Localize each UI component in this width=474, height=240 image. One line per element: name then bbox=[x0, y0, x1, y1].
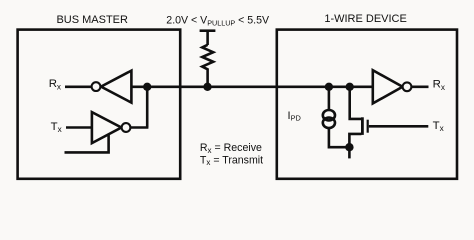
svg-text:Rx = Receive: Rx = Receive bbox=[200, 142, 262, 155]
svg-text:2.0V < VPULLUP < 5.5V: 2.0V < VPULLUP < 5.5V bbox=[166, 14, 270, 27]
svg-text:BUS MASTER: BUS MASTER bbox=[56, 14, 128, 26]
svg-text:Tx: Tx bbox=[51, 121, 62, 134]
svg-text:IPD: IPD bbox=[288, 110, 301, 123]
svg-text:Tx: Tx bbox=[433, 120, 444, 133]
svg-text:1-WIRE DEVICE: 1-WIRE DEVICE bbox=[324, 13, 407, 25]
svg-text:Rx: Rx bbox=[49, 78, 61, 91]
svg-text:Rx: Rx bbox=[433, 79, 445, 92]
svg-text:Tx = Transmit: Tx = Transmit bbox=[200, 154, 263, 167]
